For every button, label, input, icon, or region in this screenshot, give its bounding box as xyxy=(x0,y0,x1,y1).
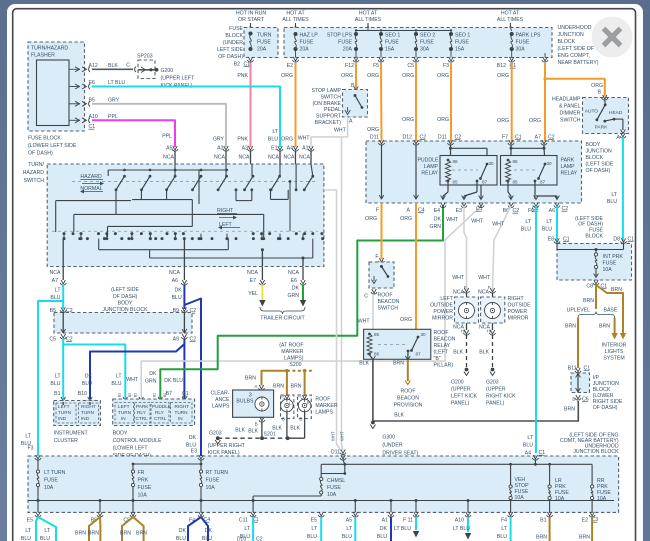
svg-text:SWITCH: SWITCH xyxy=(321,94,342,100)
svg-text:FUSE: FUSE xyxy=(338,40,352,46)
svg-text:BLK: BLK xyxy=(359,361,369,367)
svg-text:10A: 10A xyxy=(597,496,607,502)
svg-text:10A: 10A xyxy=(515,495,525,501)
svg-text:SEO 2: SEO 2 xyxy=(420,33,435,39)
svg-text:MIRROR: MIRROR xyxy=(508,316,529,322)
svg-text:WHT: WHT xyxy=(334,128,347,134)
svg-text:RIGHT: RIGHT xyxy=(175,404,190,409)
svg-text:LT: LT xyxy=(346,526,352,532)
svg-text:HOT AT: HOT AT xyxy=(359,11,378,17)
svg-text:E3: E3 xyxy=(191,449,197,455)
svg-text:C: C xyxy=(126,63,130,69)
svg-text:DK: DK xyxy=(434,217,442,223)
svg-text:LT: LT xyxy=(25,434,31,440)
svg-text:UPLEVEL: UPLEVEL xyxy=(567,308,590,314)
svg-text:NCA: NCA xyxy=(268,155,279,161)
svg-text:LT BLU: LT BLU xyxy=(108,80,125,86)
svg-text:BRN: BRN xyxy=(564,407,575,413)
svg-text:15A: 15A xyxy=(385,47,395,53)
svg-text:BEACON: BEACON xyxy=(378,299,400,305)
svg-text:PUDDLE: PUDDLE xyxy=(152,404,171,409)
svg-text:D10: D10 xyxy=(237,537,246,541)
svg-text:BLK: BLK xyxy=(248,429,258,435)
svg-text:ANCE: ANCE xyxy=(215,397,230,403)
svg-text:LAMP: LAMP xyxy=(561,164,576,170)
svg-text:ROOF: ROOF xyxy=(378,293,393,299)
svg-text:B1: B1 xyxy=(540,518,546,524)
svg-text:A1: A1 xyxy=(382,518,388,524)
svg-text:BRN: BRN xyxy=(611,287,622,293)
svg-text:DK: DK xyxy=(149,371,157,377)
svg-text:C11: C11 xyxy=(239,518,248,524)
svg-text:E7: E7 xyxy=(250,278,256,284)
svg-text:B12: B12 xyxy=(497,63,506,69)
svg-text:DK: DK xyxy=(292,286,300,292)
svg-text:WHT: WHT xyxy=(126,377,139,383)
svg-text:BRN: BRN xyxy=(579,535,590,541)
svg-text:F12: F12 xyxy=(345,63,354,69)
svg-text:30: 30 xyxy=(489,161,495,166)
svg-text:ORG: ORG xyxy=(497,118,509,124)
svg-text:DK: DK xyxy=(174,288,182,294)
svg-text:D11: D11 xyxy=(438,135,447,141)
svg-text:BLU: BLU xyxy=(521,227,531,233)
svg-text:B2: B2 xyxy=(153,393,157,397)
svg-text:SEO 1: SEO 1 xyxy=(455,33,470,39)
svg-text:STOP LAMP: STOP LAMP xyxy=(311,88,341,94)
svg-text:LT BLU: LT BLU xyxy=(394,526,411,532)
svg-text:A6: A6 xyxy=(172,278,178,284)
svg-text:10A: 10A xyxy=(206,485,216,491)
svg-text:LIGHTS: LIGHTS xyxy=(605,349,624,355)
svg-text:BLOCK: BLOCK xyxy=(585,234,603,240)
svg-text:LEFT: LEFT xyxy=(118,404,130,409)
svg-text:A: A xyxy=(407,208,411,214)
svg-text:OF DASH): OF DASH) xyxy=(113,294,138,300)
svg-text:INSTRUMENT: INSTRUMENT xyxy=(54,431,89,437)
svg-text:G203: G203 xyxy=(486,380,499,386)
svg-text:30A: 30A xyxy=(516,47,526,53)
svg-text:A3: A3 xyxy=(217,146,223,152)
svg-text:JUNCTION: JUNCTION xyxy=(586,149,612,155)
svg-text:BLU: BLU xyxy=(202,536,212,541)
svg-text:BLU: BLU xyxy=(523,443,533,449)
svg-text:WHT: WHT xyxy=(471,219,484,225)
svg-text:E8: E8 xyxy=(548,237,554,243)
svg-text:A: A xyxy=(349,119,353,125)
svg-text:BRN: BRN xyxy=(245,376,256,382)
svg-text:B1: B1 xyxy=(54,391,60,397)
svg-text:B2: B2 xyxy=(134,393,138,397)
svg-text:BLU: BLU xyxy=(268,137,278,143)
svg-text:ORG: ORG xyxy=(365,216,377,222)
svg-text:F: F xyxy=(375,254,378,260)
svg-text:OR START: OR START xyxy=(238,17,265,23)
svg-text:NCA: NCA xyxy=(478,290,489,296)
svg-text:20A: 20A xyxy=(257,47,267,53)
svg-text:HOT AT: HOT AT xyxy=(501,11,520,17)
svg-text:BRN: BRN xyxy=(583,298,594,304)
svg-text:HEADLAMP: HEADLAMP xyxy=(552,97,581,103)
svg-text:85: 85 xyxy=(374,332,380,337)
svg-text:BODY: BODY xyxy=(586,142,601,148)
svg-text:HAZARD: HAZARD xyxy=(23,170,45,176)
svg-text:CLUSTER: CLUSTER xyxy=(54,438,78,444)
svg-text:& PANEL: & PANEL xyxy=(559,104,581,110)
svg-text:OUTSIDE: OUTSIDE xyxy=(508,303,532,309)
svg-text:HAZ LP: HAZ LP xyxy=(300,33,319,39)
svg-text:TURN: TURN xyxy=(81,410,94,415)
svg-text:ORG: ORG xyxy=(400,216,412,222)
svg-text:C8: C8 xyxy=(586,284,593,290)
svg-text:86: 86 xyxy=(513,159,519,164)
svg-text:F3: F3 xyxy=(27,446,33,452)
svg-text:PANEL): PANEL) xyxy=(451,401,470,407)
svg-text:BLU: BLU xyxy=(111,381,121,387)
svg-text:(LEFT SIDE: (LEFT SIDE xyxy=(111,287,139,293)
svg-text:BRN: BRN xyxy=(599,324,610,330)
svg-text:GRY: GRY xyxy=(213,137,225,143)
svg-text:WHT: WHT xyxy=(452,275,465,281)
svg-text:FUSE: FUSE xyxy=(516,40,530,46)
svg-text:TURN: TURN xyxy=(58,410,71,415)
svg-text:FUSE: FUSE xyxy=(327,485,341,491)
svg-text:30: 30 xyxy=(547,161,553,166)
svg-text:BLK: BLK xyxy=(235,428,245,434)
svg-text:WHT: WHT xyxy=(492,222,505,228)
svg-text:BRN: BRN xyxy=(565,324,576,330)
svg-text:LT: LT xyxy=(116,374,122,380)
svg-text:BLOCK: BLOCK xyxy=(558,39,576,45)
svg-text:RLY: RLY xyxy=(155,410,165,415)
svg-text:BEACON: BEACON xyxy=(434,337,456,343)
svg-text:STOP LPS: STOP LPS xyxy=(327,33,353,39)
svg-text:IN: IN xyxy=(178,416,183,421)
svg-text:ORG: ORG xyxy=(402,73,414,79)
svg-text:BLK: BLK xyxy=(108,63,118,69)
svg-text:FR: FR xyxy=(138,470,145,476)
svg-text:3: 3 xyxy=(249,392,252,398)
svg-text:DK: DK xyxy=(205,528,213,534)
svg-text:RLY: RLY xyxy=(137,410,147,415)
svg-text:LAMPS): LAMPS) xyxy=(284,356,304,362)
svg-text:FUSE: FUSE xyxy=(138,485,152,491)
svg-text:87: 87 xyxy=(482,180,488,185)
svg-text:ROOF: ROOF xyxy=(434,330,449,336)
svg-text:LT: LT xyxy=(501,526,507,532)
svg-text:AUTO: AUTO xyxy=(585,109,599,115)
svg-text:NCA: NCA xyxy=(169,270,180,276)
svg-text:85: 85 xyxy=(513,180,519,185)
svg-text:BLU: BLU xyxy=(21,536,31,541)
svg-text:A10: A10 xyxy=(455,518,464,524)
svg-text:OF DASH): OF DASH) xyxy=(28,151,53,157)
svg-text:CTRL: CTRL xyxy=(136,416,149,421)
svg-text:TURN/HAZARD: TURN/HAZARD xyxy=(31,46,68,52)
svg-text:LT: LT xyxy=(527,435,533,441)
svg-text:BLU: BLU xyxy=(50,381,60,387)
svg-text:20A: 20A xyxy=(343,47,353,53)
svg-text:WHT: WHT xyxy=(331,431,336,441)
svg-text:30: 30 xyxy=(421,332,427,337)
svg-text:(LOWER LEFT SIDE: (LOWER LEFT SIDE xyxy=(28,143,77,149)
svg-text:LT: LT xyxy=(55,374,61,380)
svg-text:NCA: NCA xyxy=(284,155,295,161)
svg-text:LT TURN: LT TURN xyxy=(44,470,66,476)
svg-text:LT: LT xyxy=(25,528,31,534)
svg-text:DK BLU: DK BLU xyxy=(164,378,183,384)
svg-text:KICK PANEL): KICK PANEL) xyxy=(208,450,240,456)
svg-text:PPL: PPL xyxy=(162,134,172,140)
svg-text:A6: A6 xyxy=(549,208,555,214)
svg-text:87: 87 xyxy=(416,352,422,357)
svg-text:SYSTEM: SYSTEM xyxy=(603,356,624,362)
svg-text:BLU: BLU xyxy=(542,227,552,233)
svg-text:CTRL: CTRL xyxy=(154,416,167,421)
svg-text:BRN: BRN xyxy=(273,384,284,390)
svg-text:(LEFT SIDE: (LEFT SIDE xyxy=(586,162,614,168)
svg-text:DK: DK xyxy=(85,374,93,380)
svg-text:JUNCTION BLOCK: JUNCTION BLOCK xyxy=(573,449,619,455)
svg-text:GRN: GRN xyxy=(429,224,441,230)
svg-text:C2: C2 xyxy=(256,537,263,541)
svg-text:A4: A4 xyxy=(287,146,293,152)
svg-text:FUSE: FUSE xyxy=(385,40,399,46)
svg-text:R: R xyxy=(307,400,310,405)
svg-text:BLU: BLU xyxy=(40,536,50,541)
svg-text:E4: E4 xyxy=(434,208,440,214)
svg-text:POWER: POWER xyxy=(508,309,528,315)
svg-text:FUSE: FUSE xyxy=(44,478,58,484)
svg-text:SP203: SP203 xyxy=(137,54,153,60)
svg-text:FUSE: FUSE xyxy=(257,40,271,46)
svg-text:OF DASH): OF DASH) xyxy=(593,405,618,411)
svg-text:LT: LT xyxy=(311,526,317,532)
svg-text:OF DASH): OF DASH) xyxy=(218,54,243,60)
svg-text:B: B xyxy=(282,417,285,422)
svg-text:ORG: ORG xyxy=(367,127,379,133)
svg-text:DK: DK xyxy=(179,528,187,534)
svg-text:BLU: BLU xyxy=(172,295,182,301)
svg-text:S201: S201 xyxy=(264,432,276,438)
svg-text:ENG COMPT,: ENG COMPT, xyxy=(558,53,590,59)
svg-text:HOT IN RUN: HOT IN RUN xyxy=(236,11,266,17)
svg-text:RIGHT: RIGHT xyxy=(508,296,525,302)
svg-text:C5: C5 xyxy=(49,337,56,343)
svg-text:G200: G200 xyxy=(161,68,174,74)
svg-text:ORG: ORG xyxy=(529,118,541,124)
svg-text:"B": "B" xyxy=(434,356,441,362)
svg-text:DK: DK xyxy=(189,435,197,441)
svg-text:BRN: BRN xyxy=(88,531,99,537)
svg-text:LEFT KICK: LEFT KICK xyxy=(451,394,478,400)
svg-text:LT: LT xyxy=(611,192,617,198)
svg-text:LT: LT xyxy=(272,129,278,135)
svg-text:G300: G300 xyxy=(382,435,395,441)
svg-text:LT BLU: LT BLU xyxy=(453,526,470,532)
svg-text:ORG: ORG xyxy=(497,73,509,79)
svg-text:GRN: GRN xyxy=(145,379,157,385)
svg-text:BODY: BODY xyxy=(118,301,133,307)
svg-text:ALL TIMES: ALL TIMES xyxy=(355,17,382,23)
svg-text:LAMP: LAMP xyxy=(424,164,439,170)
svg-text:86: 86 xyxy=(374,352,380,357)
svg-text:A10: A10 xyxy=(89,114,98,120)
svg-text:(UPPER: (UPPER xyxy=(486,387,506,393)
svg-text:NCA: NCA xyxy=(247,270,258,276)
svg-text:ORG: ORG xyxy=(402,117,414,123)
svg-text:G200: G200 xyxy=(451,380,464,386)
svg-text:BRN: BRN xyxy=(291,384,302,390)
svg-text:BRN: BRN xyxy=(393,361,404,367)
svg-text:SEO 1: SEO 1 xyxy=(385,33,400,39)
svg-text:TRAILER CIRCUIT: TRAILER CIRCUIT xyxy=(260,316,305,322)
svg-text:D11: D11 xyxy=(370,135,379,141)
svg-text:B: B xyxy=(299,417,302,422)
svg-text:PPL: PPL xyxy=(108,114,118,120)
svg-text:HAZARD: HAZARD xyxy=(80,174,102,180)
svg-text:ROOF: ROOF xyxy=(315,397,330,403)
svg-text:OUTSIDE: OUTSIDE xyxy=(430,303,454,309)
svg-text:ORG: ORG xyxy=(367,73,379,79)
svg-text:ORG: ORG xyxy=(437,73,449,79)
svg-text:WHT: WHT xyxy=(358,319,371,325)
svg-text:INT PRK: INT PRK xyxy=(603,254,624,260)
svg-text:E3: E3 xyxy=(456,208,462,214)
svg-text:B2: B2 xyxy=(163,393,167,397)
svg-text:BRN: BRN xyxy=(75,531,86,537)
svg-text:RIGHT: RIGHT xyxy=(217,208,234,214)
svg-text:F 11: F 11 xyxy=(403,518,413,524)
svg-text:WHT: WHT xyxy=(340,431,345,441)
svg-text:(UNDER: (UNDER xyxy=(382,443,402,449)
svg-text:A7: A7 xyxy=(535,135,541,141)
svg-text:BLU: BLU xyxy=(342,534,352,540)
svg-text:WHT: WHT xyxy=(478,275,491,281)
svg-text:TURN: TURN xyxy=(118,410,131,415)
svg-text:BASE: BASE xyxy=(604,308,618,314)
svg-text:F4: F4 xyxy=(501,518,507,524)
svg-text:B2: B2 xyxy=(128,393,132,397)
svg-text:B11: B11 xyxy=(568,366,577,372)
svg-text:PROVISION: PROVISION xyxy=(394,403,423,409)
svg-text:10A: 10A xyxy=(555,496,565,502)
svg-text:A9: A9 xyxy=(173,337,179,343)
svg-text:BLU: BLU xyxy=(50,295,60,301)
svg-text:(LOWER LEFT: (LOWER LEFT xyxy=(113,446,149,452)
svg-text:(LEFT SIDE OF: (LEFT SIDE OF xyxy=(558,46,595,52)
svg-text:MIRROR: MIRROR xyxy=(432,316,453,322)
svg-text:F7: F7 xyxy=(502,135,508,141)
svg-text:RT TURN: RT TURN xyxy=(206,470,229,476)
svg-text:BULBS: BULBS xyxy=(236,399,254,405)
svg-text:NEAR BATTERY): NEAR BATTERY) xyxy=(558,60,599,66)
svg-text:F3: F3 xyxy=(443,63,449,69)
svg-text:POWER: POWER xyxy=(433,309,453,315)
svg-text:BLU: BLU xyxy=(497,534,507,540)
svg-text:YEL: YEL xyxy=(248,291,258,297)
svg-text:NCA: NCA xyxy=(453,290,464,296)
svg-text:IND: IND xyxy=(58,416,67,421)
svg-text:FUSE: FUSE xyxy=(229,26,243,32)
svg-text:NCA: NCA xyxy=(163,155,174,161)
svg-text:(UPPER LEFT: (UPPER LEFT xyxy=(161,76,196,82)
svg-text:RIGHT: RIGHT xyxy=(81,404,96,409)
svg-text:NCA: NCA xyxy=(214,155,225,161)
svg-text:OF DASH): OF DASH) xyxy=(586,168,611,174)
svg-text:MARKER: MARKER xyxy=(281,349,303,355)
svg-text:F5: F5 xyxy=(373,63,379,69)
svg-text:PARK: PARK xyxy=(595,125,609,131)
svg-text:ORG: ORG xyxy=(341,73,353,79)
svg-text:10A: 10A xyxy=(44,485,54,491)
svg-text:B2: B2 xyxy=(118,393,122,397)
svg-text:B10: B10 xyxy=(78,391,87,397)
svg-text:BLK: BLK xyxy=(394,413,404,419)
svg-text:LT: LT xyxy=(55,288,61,294)
svg-text:NCA: NCA xyxy=(50,270,61,276)
svg-text:HOT AT: HOT AT xyxy=(286,11,305,17)
svg-text:NCA: NCA xyxy=(288,270,299,276)
svg-text:E5: E5 xyxy=(27,518,33,524)
svg-text:D11: D11 xyxy=(331,450,340,456)
svg-text:(LEFT: (LEFT xyxy=(434,350,449,356)
svg-text:PANEL): PANEL) xyxy=(486,401,505,407)
svg-text:C5: C5 xyxy=(407,63,414,69)
svg-text:S200: S200 xyxy=(289,362,301,368)
svg-text:PUDDLE: PUDDLE xyxy=(417,158,439,164)
svg-text:FUSE: FUSE xyxy=(420,40,434,46)
svg-text:B5: B5 xyxy=(89,98,95,104)
svg-text:JUNCTION: JUNCTION xyxy=(558,32,584,38)
svg-text:RELAY: RELAY xyxy=(434,343,451,349)
svg-text:HEAD: HEAD xyxy=(609,110,623,116)
svg-text:D12: D12 xyxy=(402,135,412,141)
svg-text:BLU: BLU xyxy=(377,534,387,540)
svg-text:FUSE BLOCK: FUSE BLOCK xyxy=(28,136,61,142)
svg-text:A5: A5 xyxy=(346,518,352,524)
svg-text:MARKER: MARKER xyxy=(315,403,337,409)
svg-text:(UNDER: (UNDER xyxy=(223,40,243,46)
svg-text:GRN: GRN xyxy=(287,293,299,299)
svg-text:LT: LT xyxy=(44,528,50,534)
svg-text:SWITCH: SWITCH xyxy=(560,118,581,124)
svg-text:CHMSL: CHMSL xyxy=(327,478,345,484)
svg-text:(UPPER: (UPPER xyxy=(451,387,471,393)
svg-text:A: A xyxy=(617,135,621,141)
svg-text:E5: E5 xyxy=(311,518,317,524)
svg-text:DIMMER: DIMMER xyxy=(559,111,580,117)
svg-text:ORG: ORG xyxy=(400,317,412,323)
svg-text:FUSE: FUSE xyxy=(300,40,314,46)
svg-text:LAMPS: LAMPS xyxy=(212,404,230,410)
svg-text:PNK: PNK xyxy=(237,73,248,79)
svg-text:BLU: BLU xyxy=(176,536,186,541)
svg-text:G203: G203 xyxy=(209,431,222,437)
svg-text:GRY: GRY xyxy=(108,98,120,104)
svg-text:BLK: BLK xyxy=(453,350,463,356)
svg-text:10A: 10A xyxy=(138,493,148,499)
svg-text:B: B xyxy=(572,397,575,402)
svg-text:CLEAR-: CLEAR- xyxy=(210,391,229,397)
svg-text:LT: LT xyxy=(244,526,250,532)
svg-text:A5: A5 xyxy=(166,146,172,152)
svg-text:RELAY: RELAY xyxy=(421,171,438,177)
svg-text:B2: B2 xyxy=(234,62,240,68)
svg-text:E6: E6 xyxy=(291,278,297,284)
svg-text:E2: E2 xyxy=(287,63,293,69)
svg-text:SWITCH: SWITCH xyxy=(378,306,399,312)
